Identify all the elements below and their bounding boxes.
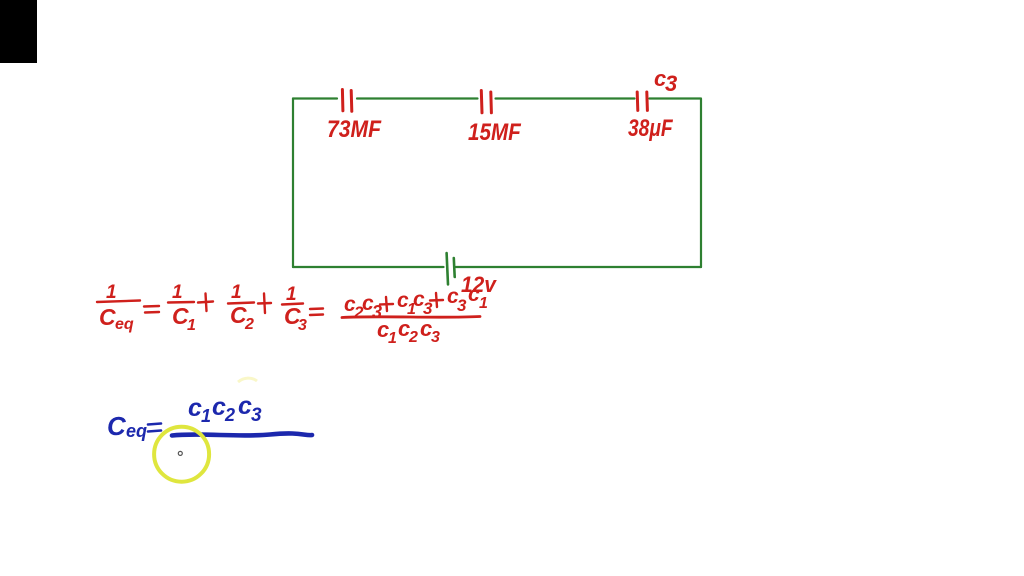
svg-text:73MF: 73MF (327, 116, 382, 143)
svg-text:c: c (212, 393, 226, 421)
svg-text:3: 3 (298, 317, 307, 334)
svg-text:eq: eq (115, 316, 134, 333)
svg-text:1: 1 (201, 406, 211, 426)
svg-text:1: 1 (479, 295, 488, 312)
svg-text:2: 2 (244, 316, 254, 333)
svg-text:c: c (188, 394, 202, 422)
svg-text:15MF: 15MF (468, 119, 522, 146)
svg-text:1: 1 (187, 317, 196, 334)
svg-text:1: 1 (388, 330, 397, 347)
svg-text:38μF: 38μF (628, 114, 673, 142)
svg-text:C: C (99, 304, 116, 330)
svg-text:3: 3 (431, 329, 440, 346)
svg-text:1: 1 (172, 282, 183, 303)
svg-text:2: 2 (224, 405, 235, 425)
svg-text:1: 1 (106, 282, 117, 303)
svg-text:eq: eq (126, 421, 147, 441)
svg-text:1: 1 (286, 284, 297, 305)
svg-text:1: 1 (231, 282, 242, 303)
svg-text:2: 2 (408, 329, 418, 346)
svg-text:C: C (107, 411, 127, 441)
svg-text:3: 3 (457, 296, 467, 315)
svg-text:c: c (238, 392, 252, 420)
svg-text:3: 3 (251, 405, 262, 426)
svg-text:3: 3 (665, 71, 677, 96)
